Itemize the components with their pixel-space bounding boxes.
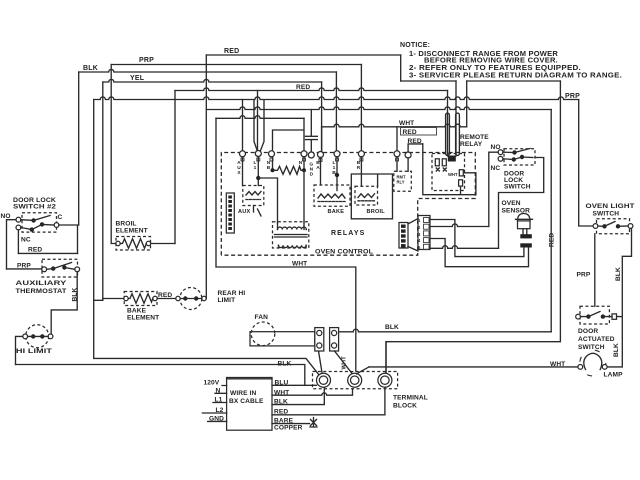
cap / GND symbol: [306, 110, 318, 152]
wire line B RED-net y=109.5 from v206.3 to v551.2 (hops): [206, 107, 551, 110]
svg-text:1: 1: [254, 165, 257, 171]
wire RED drop v206.3 from y55 to REAR HI LIMIT (hops drawn on horizontals): [205, 55, 207, 299]
svg-text:B: B: [267, 165, 271, 171]
auxiliary thermostat lever: [47, 263, 75, 270]
svg-text:PRP: PRP: [565, 93, 580, 100]
lamp dashed holder: [580, 350, 606, 376]
svg-text:SWITCH: SWITCH: [593, 211, 620, 218]
wire secondary leads to pin strip: [279, 245, 307, 247]
wire NC drop v18.4 to RED line: [17, 230, 19, 254]
door lock switch box: [504, 149, 535, 165]
door lock switch terminals: [498, 150, 503, 155]
svg-text:R: R: [357, 165, 361, 171]
bake element resistor box: [124, 292, 157, 306]
svg-text:RELAYS: RELAYS: [331, 230, 365, 237]
left stubs: [202, 386, 226, 422]
svg-text:PRP: PRP: [139, 57, 154, 64]
door lock switch #2 terminals: [16, 217, 21, 222]
broil relay coil: [358, 194, 375, 198]
wire AUX drop v242.5: [242, 100, 244, 151]
wire lineC corner down to N + h130 to NB: [273, 118, 305, 151]
svg-text:BLK: BLK: [385, 324, 399, 331]
svg-text:WHT: WHT: [399, 120, 414, 127]
svg-text:BLK: BLK: [83, 65, 98, 72]
wire v466.7 from y81 to y126.8: [466, 81, 468, 127]
hi limit terminals: [23, 334, 28, 339]
wire C right side down v543.75 then left y192.5 then v498.5: [499, 158, 544, 249]
wire sensor left lead down to h256.6 to v454.9 (pin1): [430, 220, 524, 257]
svg-text:ELEMENT: ELEMENT: [116, 228, 148, 235]
door actuated switch box: [580, 306, 609, 324]
wire v355.8 WHT riser from oven control: [216, 118, 356, 371]
wire bake left leads: [94, 299, 124, 301]
wire NO left and down v488.8 to pin2: [489, 152, 498, 226]
broil element resistor box: [116, 237, 151, 251]
svg-text:BLOCK: BLOCK: [393, 403, 417, 410]
svg-text:BAKE: BAKE: [127, 308, 147, 315]
svg-text:WHT: WHT: [448, 172, 458, 177]
svg-text:BROIL: BROIL: [116, 221, 137, 228]
wire pin2 h226.5 (hop at 454.9): [430, 224, 489, 227]
svg-text:REAR HI: REAR HI: [218, 290, 246, 297]
svg-text:BLK: BLK: [278, 361, 292, 368]
wire rear hi limit right up v206.3: [205, 298, 207, 300]
wire pin5 h248.3 (hops at 445.1, 454.9): [430, 246, 499, 249]
svg-text:PRP: PRP: [17, 262, 31, 269]
wire hi limit left down to neutral run: [16, 336, 23, 364]
wire PRP v578.7 to oven light switch: [579, 101, 594, 227]
wire hop on h341.7 at v355.8: [386, 342, 389, 373]
wire RED h253.4: [18, 252, 77, 254]
wire BA terminal lead: [321, 127, 322, 185]
svg-text:RED: RED: [403, 129, 417, 136]
wire bake right to rear hi limit: [157, 298, 176, 300]
terminal column labels (stacked letters): [237, 160, 361, 178]
svg-text:SWITCH: SWITCH: [578, 344, 605, 351]
broil element resistor zigzag: [120, 239, 146, 249]
wire L1 terminal down with junction dot: [257, 157, 259, 186]
svg-text:LIMIT: LIMIT: [218, 297, 236, 304]
wire BLK drop v78.7 to door lock switch 2 C: [78, 72, 80, 225]
svg-text:RED: RED: [408, 138, 422, 145]
fan body: [250, 332, 315, 346]
wire WHT-net y=81 from v466.7 to v560.4: [467, 80, 561, 82]
wire WHT-net right v561 down to y341.7 then left to terminal block c3: [389, 81, 561, 342]
svg-text:C: C: [58, 214, 63, 221]
svg-text:REMOTE: REMOTE: [460, 134, 489, 141]
wire RED line5 y=90.5 (hops v206.3,v242.5?,v257.5?,v321.6,v336.4,v361.4): [175, 88, 448, 91]
oven control dashed outline: [221, 153, 475, 256]
wire WHT lamp link from c2: [357, 367, 370, 374]
bake relay box: [314, 185, 350, 206]
wire PRP drop v361.4 to terminal BR: [360, 65, 362, 151]
wire fan relay diagonals to terminals: [319, 351, 352, 373]
wire RMT RLY leads: [397, 157, 408, 172]
wire BLK-net v551.2 from lineB down to fan wire y331.8: [550, 110, 552, 332]
transformer primary coil: [278, 227, 307, 229]
rear hi limit dashed circle: [180, 288, 202, 310]
wire L1 dot right to transformer left: [258, 178, 277, 223]
remote relay wrap wire: [423, 144, 476, 195]
svg-text:BEFORE REMOVING WIRE COVER.: BEFORE REMOVING WIRE COVER.: [424, 58, 558, 65]
transformer secondary coil: [279, 245, 307, 247]
svg-text:NC: NC: [491, 165, 501, 172]
bake element zigzag: [128, 294, 153, 304]
oven sensor terminal bars: [520, 234, 532, 238]
svg-text:DOOR: DOOR: [578, 328, 598, 335]
oven light switch terminals: [593, 224, 598, 229]
wire PRP line6 y=99.5 (hops many): [94, 97, 579, 100]
svg-text:BX CABLE: BX CABLE: [229, 398, 264, 405]
svg-text:ACTUATED: ACTUATED: [578, 336, 615, 343]
RMT RLY box: [394, 171, 412, 191]
transformer dashed box: [273, 222, 309, 248]
svg-text:A: A: [316, 165, 320, 171]
terminal block circles: [317, 373, 331, 387]
wire PRP drop v111.2 to broil element left: [110, 65, 112, 244]
broil relay contact bracket: [351, 174, 392, 219]
L1 funnel sleeve: [254, 101, 264, 151]
svg-text:HI LIMIT: HI LIMIT: [16, 348, 52, 355]
svg-text:NOTICE:: NOTICE:: [400, 42, 430, 49]
wire WHT (hop at 324): [272, 389, 353, 395]
remote relay dashed box: [432, 154, 465, 191]
wire PRP6 drop v93.7 to bake element and circle1: [94, 100, 319, 375]
wire BLU: [272, 384, 317, 386]
resistor NB-N: [273, 157, 305, 171]
svg-text:RED: RED: [224, 48, 239, 55]
wire hi-limit run y364.5 to terminal block: [16, 365, 305, 386]
svg-text:WIRE IN: WIRE IN: [230, 390, 256, 397]
fan dashed circle: [251, 322, 275, 346]
wire BLK up to c1: [272, 387, 324, 404]
hi limit dashed circle: [26, 325, 49, 348]
bx cable box: [227, 378, 272, 431]
svg-text:OVEN: OVEN: [502, 200, 521, 207]
wire L1B terminal lead with dot: [336, 157, 338, 191]
wire AUX terminal to relay box: [242, 157, 244, 186]
svg-text:RED: RED: [549, 233, 556, 247]
wire C up-link v77.5 + h225: [59, 225, 79, 253]
svg-text:BROIL: BROIL: [367, 209, 386, 215]
broil element terminals: [116, 241, 120, 245]
wire v397 up to WHT line: [396, 127, 398, 151]
door actuated switch terminals: [576, 314, 581, 319]
lamp terminals: [578, 365, 583, 370]
aux relay contact stub: [254, 206, 262, 217]
wire RED up to c3: [272, 387, 385, 415]
svg-text:FAN: FAN: [255, 314, 269, 321]
wire line C WHT-net y=118.3 from v206.3 to terminal N (hops): [216, 116, 304, 119]
svg-text:THERMOSTAT: THERMOSTAT: [16, 288, 67, 295]
aux relay box: [243, 186, 264, 206]
svg-text:WHT: WHT: [550, 361, 565, 368]
svg-text:BLK: BLK: [615, 267, 622, 281]
svg-text:AUX: AUX: [238, 209, 250, 215]
svg-text:120V: 120V: [204, 380, 220, 387]
svg-text:RED: RED: [158, 292, 172, 299]
wire YEL drop v102.8 to bake element: [102, 82, 104, 300]
svg-text:RLY: RLY: [397, 180, 405, 185]
wire WHT to lamp: [369, 366, 578, 368]
svg-text:OVEN CONTROL: OVEN CONTROL: [315, 249, 373, 256]
door lock switch #2 levers: [21, 216, 54, 230]
door lock switch #2 box: [22, 213, 57, 232]
terminal block dashed box: [313, 372, 398, 389]
auxiliary thermostat terminals: [42, 267, 47, 272]
transformer core: [275, 235, 308, 238]
wire BARE COPPER + ground: [272, 423, 310, 425]
wire BLK bus y=72 (hops v111.2): [79, 69, 337, 72]
wire RED5 drop v175 to broil element right: [174, 91, 176, 244]
rear hi limit terminals: [176, 296, 180, 300]
svg-text:OVEN LIGHT: OVEN LIGHT: [586, 203, 635, 210]
wire RED5 drop v447.5 to remote relay sleeve: [447, 91, 449, 157]
wire N dot down to transformer: [303, 170, 305, 223]
bake relay coil: [318, 194, 345, 198]
terminal pin ticks: [241, 158, 399, 162]
oven sensor bulb: [518, 214, 531, 221]
wire sensor right lead down to h266.7 to v445.1 (pin4): [430, 239, 529, 267]
svg-text:SWITCH #2: SWITCH #2: [13, 204, 56, 211]
wire RED v456 notice drop to remote relay sleeve: [455, 81, 457, 156]
fan relay boxes: [315, 328, 324, 351]
label RED boxed: [401, 128, 437, 136]
wire c3 riser v386 (drawn to h341.7): [385, 342, 387, 374]
svg-text:PRP: PRP: [577, 272, 591, 279]
wire fan BLK line y331.8 from fan relay to v551.2 (hop at 355.8): [339, 329, 551, 332]
lamp filament loop: [584, 353, 602, 369]
wire L1 drop v257.5: [257, 91, 259, 151]
svg-text:RED: RED: [296, 84, 310, 91]
svg-text:ELEMENT: ELEMENT: [127, 315, 159, 322]
svg-text:3- SERVICER PLEASE RETURN DIAG: 3- SERVICER PLEASE RETURN DIAGRAM TO RAN…: [409, 73, 622, 80]
wire YEL drop v321.6 to terminal BA: [321, 82, 323, 151]
svg-text:RELAY: RELAY: [460, 141, 483, 148]
wire broil leads: [111, 243, 175, 245]
wire RED label line v408.1 up + h143.9: [408, 144, 423, 152]
svg-text:NC: NC: [21, 237, 31, 244]
wire notice-bracket RED y=81 from v400.7 to v456: [401, 80, 456, 82]
wire thermostat right down, jog to HI LIMIT: [51, 272, 77, 334]
wire RED top drop v400.7: [400, 55, 402, 81]
bake element terminals: [124, 296, 128, 300]
svg-text:YEL: YEL: [130, 75, 145, 82]
wire oven light right jog down v622.3: [607, 228, 632, 367]
svg-text:AUXILIARY: AUXILIARY: [16, 280, 68, 287]
remote relay sleeves: [446, 113, 460, 155]
wire BLK drop v336.4 to terminal L1B: [335, 72, 337, 151]
ground mark: [310, 418, 317, 428]
svg-text:BLK: BLK: [613, 343, 620, 357]
wire RED top bus y=55: [206, 54, 400, 56]
wire WHT line y=126.8 from YEL tap to v466.7 (hops at 447.5,457.6): [322, 124, 467, 127]
dark pin strip right: [399, 223, 408, 249]
auxiliary thermostat box: [42, 259, 78, 277]
svg-text:BAKE: BAKE: [328, 209, 345, 215]
terminal circles row: [240, 151, 246, 157]
oven light switch box: [597, 219, 630, 234]
svg-text:LAMP: LAMP: [604, 372, 624, 379]
wire PRP bus y=64.5: [111, 64, 361, 66]
left pin strip connector: [226, 193, 234, 233]
svg-text:TERMINAL: TERMINAL: [393, 395, 428, 402]
remote relay internals: [435, 159, 439, 166]
wire YEL bus y=82 (hops v111.2, v206.3): [103, 79, 322, 82]
svg-text:RED: RED: [28, 247, 42, 254]
wire oven light sw down v594.8 to door actuated: [594, 234, 596, 306]
svg-text:2- REFER ONLY TO FEATURES EQUI: 2- REFER ONLY TO FEATURES EQUIPPED.: [409, 65, 581, 72]
wire PRP h268.9 to aux thermostat: [7, 268, 43, 270]
wire BR terminal lead: [360, 157, 362, 187]
5 pin connector: [418, 216, 430, 250]
svg-text:COPPER: COPPER: [274, 425, 303, 432]
svg-text:D: D: [310, 172, 314, 178]
aux relay coil: [246, 192, 261, 196]
svg-text:NO: NO: [1, 213, 11, 220]
svg-text:SWITCH: SWITCH: [504, 184, 531, 191]
broil relay box: [355, 186, 378, 205]
resistor zigzag: [275, 166, 303, 174]
wire NO stub to v6.5 down to PRP: [7, 220, 17, 269]
